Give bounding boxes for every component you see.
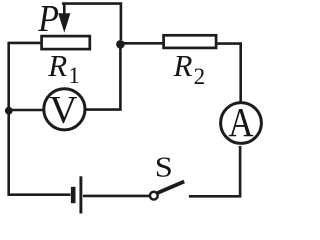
svg-text:A: A [228,100,253,145]
svg-text:P: P [37,0,59,39]
svg-text:V: V [49,89,77,132]
svg-text:S: S [155,151,173,183]
